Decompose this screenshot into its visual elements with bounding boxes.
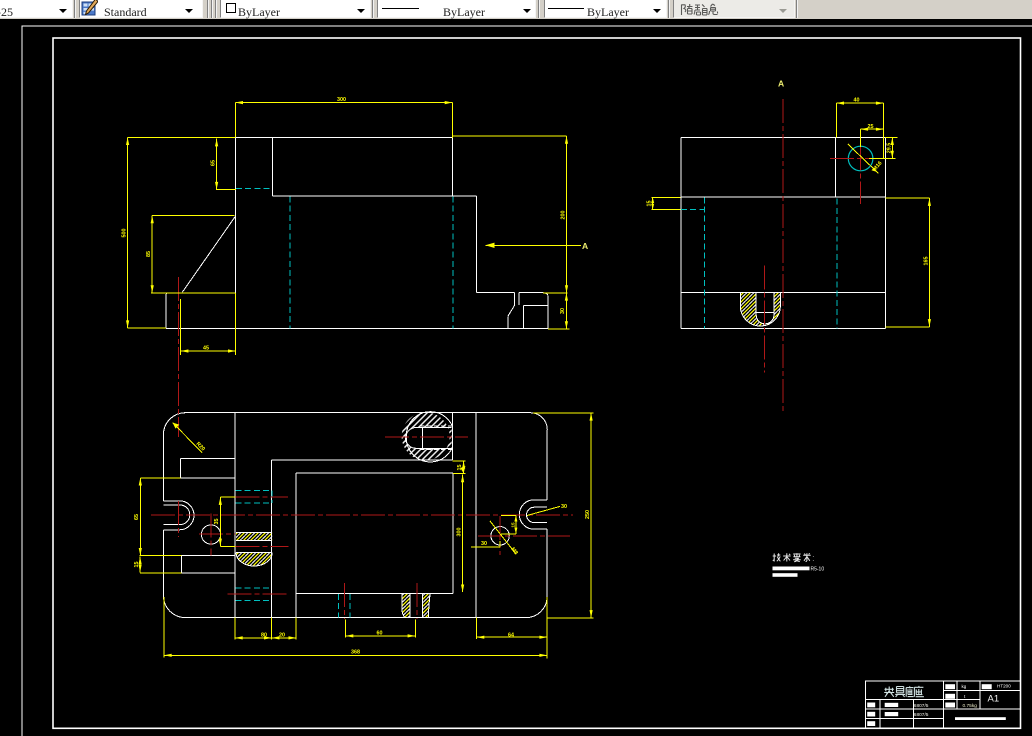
svg-text:85: 85: [146, 251, 152, 257]
svg-text:A1: A1: [988, 694, 1000, 705]
svg-text:A: A: [582, 241, 588, 251]
svg-text:65: 65: [134, 514, 140, 520]
svg-text:15: 15: [647, 201, 653, 207]
svg-text:40: 40: [854, 98, 860, 104]
svg-text:500: 500: [122, 229, 128, 238]
svg-text:200: 200: [560, 211, 566, 220]
svg-text:30: 30: [561, 504, 567, 510]
svg-text:M8: M8: [509, 547, 518, 557]
svg-text:300: 300: [457, 528, 463, 537]
svg-text:250: 250: [585, 510, 591, 519]
svg-text:R5-10: R5-10: [811, 567, 825, 573]
svg-text:20: 20: [279, 633, 285, 639]
svg-text:t: t: [964, 694, 966, 699]
svg-text:30: 30: [481, 541, 487, 547]
svg-text:35: 35: [214, 519, 220, 525]
svg-text:29.5: 29.5: [886, 143, 892, 154]
svg-text:60: 60: [377, 630, 383, 636]
svg-text:M16: M16: [872, 161, 883, 173]
svg-text:15: 15: [457, 465, 463, 471]
svg-text:HT200: HT200: [997, 684, 1011, 689]
svg-text:45: 45: [203, 346, 209, 352]
svg-text:0.75kg: 0.75kg: [963, 703, 978, 709]
svg-text:kg: kg: [962, 684, 967, 689]
svg-text:6807/5: 6807/5: [914, 712, 929, 718]
svg-text:65: 65: [210, 160, 216, 166]
svg-text:80: 80: [261, 633, 267, 639]
svg-text:300: 300: [337, 97, 346, 103]
svg-text:165: 165: [923, 257, 929, 266]
svg-text:15: 15: [510, 522, 515, 528]
svg-text:30: 30: [560, 308, 566, 314]
svg-text:6807/5: 6807/5: [914, 703, 929, 709]
svg-text:A: A: [778, 79, 784, 89]
svg-text:15: 15: [134, 562, 140, 568]
svg-text:R20: R20: [195, 441, 206, 452]
svg-text:368: 368: [351, 650, 360, 656]
svg-text:25: 25: [868, 124, 874, 130]
svg-text:64: 64: [508, 632, 514, 638]
